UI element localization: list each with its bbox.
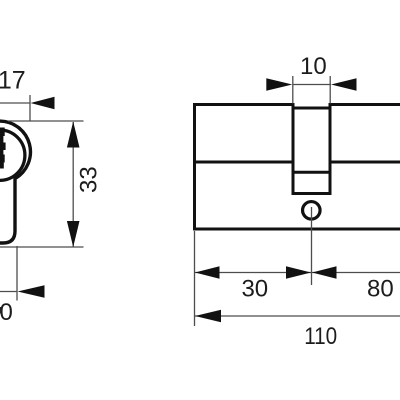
dimension 30: left arrow (points left)	[195, 266, 220, 278]
screw hole circle	[303, 202, 321, 220]
dimension 110: dim line	[195, 315, 400, 317]
cam slot: bottom line	[292, 192, 332, 195]
svg-text:30: 30	[241, 276, 268, 303]
dimension 10: right arrow (points left)	[331, 78, 357, 90]
dimension 33: top extension line	[8, 120, 84, 122]
cam slot: left side	[292, 103, 295, 195]
dimension 10 bottom: arrow (points left)	[18, 285, 45, 297]
dimension 10: dim line	[293, 84, 332, 86]
dimension 30/80: dim line	[195, 272, 400, 274]
left extension line (body left edge)	[194, 231, 196, 326]
svg-text:17: 17	[0, 67, 26, 95]
keyway (key profile silhouette)	[0, 128, 6, 169]
dimension 30: right arrow (points right)	[286, 266, 311, 278]
dimension 33: up arrow	[67, 122, 80, 148]
cam slot: top line	[292, 107, 332, 110]
body outline: bottom edge	[193, 228, 400, 231]
body middle line (interrupted by cam slot)	[196, 161, 293, 164]
svg-text:0: 0	[0, 299, 13, 326]
svg-text:110: 110	[304, 323, 337, 350]
dimension 10: right extension line	[329, 76, 331, 104]
dimension 33: dim line	[72, 122, 74, 247]
svg-text:80: 80	[367, 276, 394, 303]
dimension 110: left arrow (points left)	[195, 310, 221, 322]
dimension 10 bottom: extension line	[16, 246, 18, 301]
partial digit 1 of 10 at image left edge	[0, 307, 2, 314]
dimension 17: extension line	[29, 95, 31, 121]
center line through hole	[311, 207, 313, 285]
dimension 10: left arrow (points right)	[266, 78, 292, 90]
dimension 17: arrow (points left)	[31, 97, 55, 109]
dimension 80: left arrow (points left)	[312, 266, 337, 278]
plug inner circle	[0, 130, 25, 180]
svg-text:10: 10	[300, 53, 327, 80]
cam slot: right side	[329, 103, 332, 195]
body outline: top edge (interrupted by cam slot)	[193, 103, 295, 106]
dimension 33: down arrow	[67, 221, 80, 247]
cam slot: internal line	[292, 171, 331, 174]
svg-text:33: 33	[76, 166, 103, 193]
dimension 17: dim line	[0, 102, 31, 104]
cylinder outer profile (circle + foot)	[0, 121, 30, 243]
dimension 10 (foot width, left part cut off): dim line	[0, 291, 18, 293]
dimension 10: left extension line	[292, 76, 294, 104]
body outline: left edge	[193, 103, 196, 231]
dimension 33: bottom extension line	[0, 246, 84, 248]
